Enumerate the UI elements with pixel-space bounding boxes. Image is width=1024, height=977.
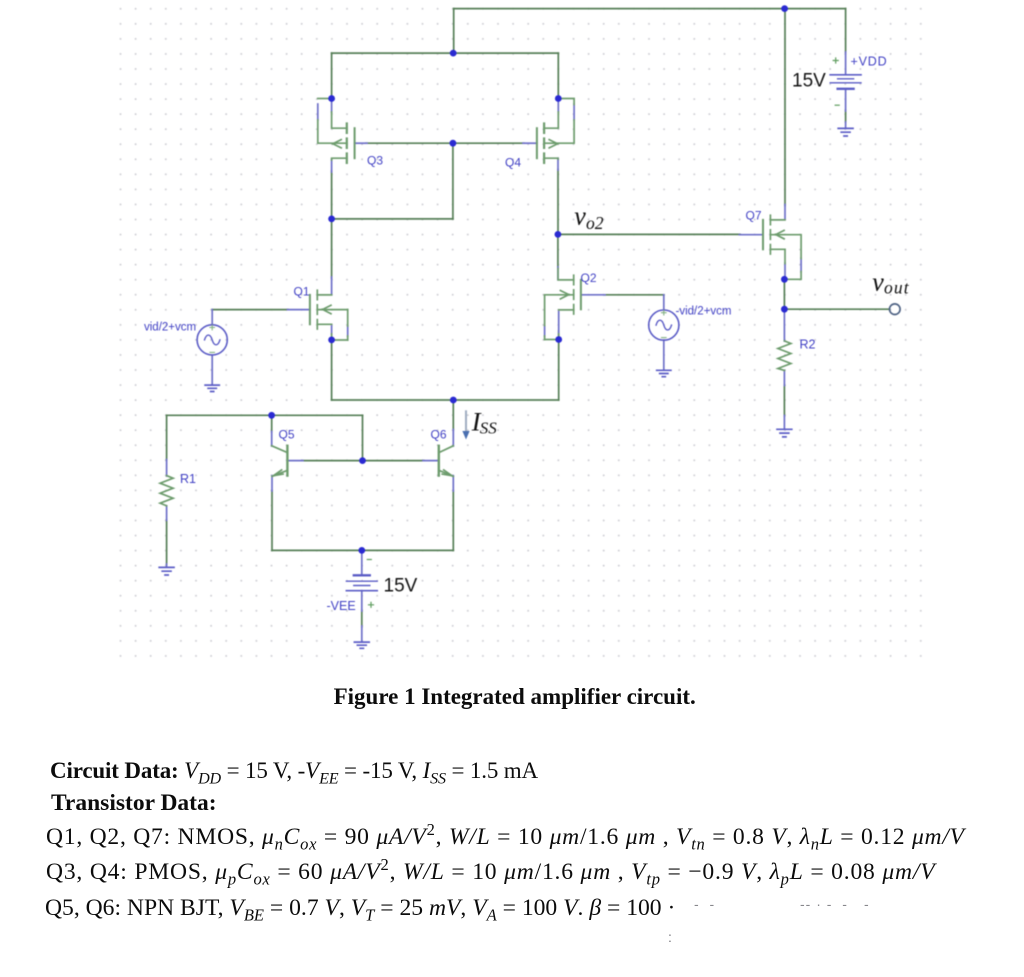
pin lead V2 + terminal bbox=[663, 295, 665, 310]
wire R1 top bbox=[166, 415, 168, 460]
pin lead Q7 drain bbox=[784, 205, 786, 220]
junction Q4 source-body bbox=[555, 95, 562, 102]
svg-text:R2: R2 bbox=[800, 338, 816, 352]
wire VDD battery to ground bbox=[845, 110, 847, 122]
wire vid source to Q1 gate bbox=[212, 309, 288, 311]
pin lead Q6 base bbox=[423, 460, 439, 462]
output terminal vout bbox=[890, 304, 901, 315]
svg-text:Q4: Q4 bbox=[505, 156, 521, 170]
battery VDD 15V bbox=[830, 58, 861, 105]
svg-text:Q7: Q7 bbox=[746, 209, 762, 223]
pin lead VDD ground bbox=[845, 122, 847, 128]
wire base rail Q5-Q6 bbox=[302, 460, 424, 462]
pin lead Q2 gate bbox=[581, 294, 605, 296]
wire Q3 source drop bbox=[331, 53, 333, 96]
wire Q2 gate to -vid source bbox=[604, 294, 664, 296]
pin lead V1 + terminal bbox=[211, 310, 213, 325]
svg-text:v: v bbox=[872, 268, 884, 297]
pin lead Q4 source bbox=[557, 96, 559, 112]
wire mirror node drop bbox=[452, 143, 454, 219]
pin lead R1 bottom bbox=[166, 506, 168, 521]
ground for V1 bbox=[205, 385, 219, 391]
pin lead VDD battery + terminal bbox=[845, 52, 847, 75]
pin lead Q4 body bbox=[573, 104, 575, 120]
pin lead Q7 body bbox=[800, 258, 802, 272]
transistor data heading bbox=[51, 792, 217, 816]
BJT data line bbox=[45, 897, 675, 921]
ISS current arrow bbox=[462, 411, 469, 439]
wire Q2 source drop bbox=[558, 331, 560, 400]
transistor Q5 bbox=[272, 446, 288, 477]
wire Q5 collector riser bbox=[271, 415, 273, 432]
wire bottom emitter rail bbox=[272, 549, 453, 551]
pin lead R2 top bbox=[783, 309, 785, 341]
wire Q5 emitter drop bbox=[271, 491, 273, 551]
svg-text:-VEE: -VEE bbox=[327, 599, 356, 613]
node vo2 junction bbox=[555, 231, 562, 238]
pin lead Q2 source bbox=[558, 312, 560, 335]
grid (decorative) bbox=[115, 3, 927, 659]
pin lead R2 bottom bbox=[783, 370, 785, 385]
pin lead Q7 gate bbox=[739, 234, 763, 236]
wire R1 bottom bbox=[166, 520, 168, 565]
pin lead VEE battery - terminal bbox=[361, 550, 363, 575]
resistor R2 bbox=[778, 341, 791, 371]
wire R2 node to vout terminal bbox=[784, 308, 889, 310]
wire bias rail R1 to Q5 bbox=[167, 414, 363, 416]
svg-text:Q3: Q3 bbox=[367, 154, 383, 168]
svg-text:15V: 15V bbox=[792, 71, 826, 92]
pin lead Q7 source bbox=[784, 263, 786, 279]
wire VDD battery drop bbox=[845, 9, 847, 52]
svg-text:out: out bbox=[884, 278, 910, 298]
wire Q4 source drop bbox=[557, 53, 559, 96]
pin lead Q6 collector bbox=[452, 430, 454, 447]
wire Q3 drain to Q1 drain bbox=[331, 171, 333, 278]
pin lead R2 ground bbox=[783, 416, 785, 429]
junction Q3-Q4 gate mirror node bbox=[450, 140, 457, 147]
junction Q3 source-body bbox=[328, 95, 335, 102]
pin lead R1 ground bbox=[166, 564, 168, 567]
wire vo2 to Q7 gate bbox=[558, 233, 740, 235]
junction Q2 source-body bbox=[555, 336, 562, 343]
wire VEE battery to ground bbox=[361, 610, 363, 627]
pin lead Q3 source bbox=[331, 96, 333, 112]
transistor Q7 bbox=[763, 215, 801, 279]
transistor Q1 bbox=[310, 290, 348, 340]
pin lead Q3 drain bbox=[331, 160, 333, 173]
faint colon artifact bbox=[668, 929, 672, 945]
junction ISS rail / Q6 collector bbox=[450, 397, 457, 404]
faint artifact marks bbox=[694, 896, 715, 912]
junction Q7 source-body bbox=[781, 276, 788, 283]
voltage source V2 -vid/2+vcm bbox=[649, 310, 679, 340]
circuit data line bbox=[50, 759, 538, 782]
pin lead Q4 drain bbox=[557, 158, 559, 170]
svg-text:15V: 15V bbox=[384, 576, 418, 597]
pin lead R1 top bbox=[166, 460, 168, 477]
pin lead Q5 collector bbox=[271, 432, 273, 447]
svg-text:Q1: Q1 bbox=[294, 285, 310, 299]
junction emitter rail / VEE battery bbox=[358, 547, 365, 554]
ground for R1 bbox=[159, 567, 174, 575]
wire Q6 emitter drop bbox=[452, 491, 454, 551]
resistor R1 bbox=[160, 476, 173, 506]
pin lead Q2 body bbox=[544, 326, 546, 337]
transistor Q2 bbox=[545, 269, 581, 340]
svg-text:v: v bbox=[574, 202, 586, 231]
NMOS data line bbox=[46, 826, 965, 850]
junction Q3 drain / Q1 drain bbox=[328, 216, 335, 223]
pin lead Q3 body bbox=[317, 104, 319, 120]
svg-text:SS: SS bbox=[480, 419, 498, 438]
pin lead Q1 body bbox=[347, 326, 349, 337]
pin lead V2 - terminal bbox=[663, 340, 665, 370]
wire ISS tail rail bbox=[332, 399, 559, 401]
wire Q7 drain riser bbox=[784, 9, 786, 206]
pin lead V1 - terminal bbox=[211, 355, 213, 384]
svg-text:R1: R1 bbox=[180, 472, 196, 486]
pin lead Q3 gate bbox=[355, 142, 367, 144]
transistor Q4 bbox=[537, 99, 574, 163]
svg-text:Q5: Q5 bbox=[279, 428, 295, 442]
transistor Q6 bbox=[439, 446, 454, 477]
junction bias rail / Q5 collector bbox=[268, 412, 275, 419]
pin lead Q1 drain bbox=[331, 277, 333, 295]
PMOS data line bbox=[46, 861, 935, 885]
wire mirror to Q3 drain bbox=[332, 218, 453, 220]
wire top VDD rail bbox=[454, 8, 846, 10]
wire vo2 node drop to Q2 drain bbox=[557, 234, 559, 268]
voltage source V1 vid/2+vcm bbox=[197, 325, 227, 355]
wire PMOS source rail bbox=[332, 52, 559, 54]
junction top rail / PMOS source rail bbox=[450, 50, 457, 57]
svg-text:-vid/2+vcm: -vid/2+vcm bbox=[676, 306, 732, 318]
wire bias rail drop to base rail bbox=[362, 415, 364, 460]
junction Q1 source-body bbox=[328, 337, 335, 344]
svg-text:Q2: Q2 bbox=[581, 271, 597, 285]
svg-text:Q6: Q6 bbox=[431, 428, 447, 442]
pin lead Q2 drain bbox=[557, 267, 559, 280]
svg-text:+VDD: +VDD bbox=[851, 55, 888, 69]
pin lead Q5 emitter bbox=[271, 476, 273, 491]
junction base rail bbox=[359, 457, 366, 464]
pin lead VEE battery + terminal bbox=[361, 591, 363, 611]
caption: Figure 1 Integrated amplifier circuit. bbox=[334, 685, 696, 708]
ground for VDD battery bbox=[838, 128, 853, 136]
svg-text:o2: o2 bbox=[586, 213, 604, 233]
transistor Q3 bbox=[318, 99, 355, 163]
wire Q3 gate to mirror node bbox=[366, 142, 453, 144]
ground for VEE battery bbox=[354, 642, 369, 648]
pin lead VEE ground bbox=[361, 626, 363, 642]
junction VDD rail / Q7 drain bbox=[781, 5, 788, 12]
battery VEE 15V bbox=[346, 560, 377, 608]
pin lead Q6 emitter bbox=[452, 476, 454, 491]
wire Q7 source to R2 bbox=[783, 279, 785, 309]
wire top rail to PMOS rail bbox=[453, 9, 455, 54]
wire Q1 source to ISS rail bbox=[331, 340, 333, 400]
ground for R2 bbox=[777, 429, 792, 437]
ground for V2 bbox=[657, 370, 671, 376]
pin lead Q1 source bbox=[331, 326, 333, 335]
wire R2 bottom to ground bbox=[783, 385, 785, 416]
pin lead VDD battery - terminal bbox=[845, 89, 847, 111]
pin lead Q5 base bbox=[288, 460, 304, 462]
svg-text:vid/2+vcm: vid/2+vcm bbox=[144, 322, 196, 334]
pin lead Q4 gate bbox=[523, 142, 537, 144]
node vout junction bbox=[781, 306, 788, 313]
pin lead Q1 gate bbox=[288, 309, 310, 311]
wire mirror node to Q4 gate bbox=[453, 142, 524, 144]
wire Q4 drain to vo2 node bbox=[557, 170, 559, 232]
wire Q6 collector riser bbox=[452, 400, 454, 430]
